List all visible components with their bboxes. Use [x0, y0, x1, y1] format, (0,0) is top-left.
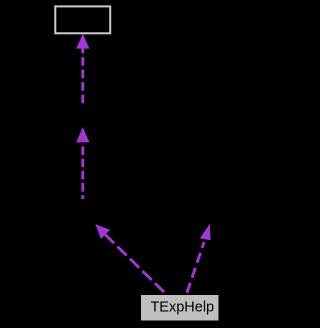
wire: left diagonal arrow line [105, 234, 166, 293]
wire: dashed arrow 1 line [81, 48, 84, 103]
wire: right diagonal arrow line [187, 242, 205, 294]
wire: dashed arrow 2 head (to middle invisible node) [76, 127, 89, 142]
node TExpHelp [141, 295, 220, 322]
wire: dashed arrow 2 line [81, 146, 84, 199]
wire: left diagonal arrow head (TExpHelp to lower invisible node) [95, 224, 110, 239]
wire: right diagonal arrow head (TExpHelp to right invisible node) [200, 224, 211, 241]
node: empty top box [55, 6, 110, 33]
svg-text:TExpHelp: TExpHelp [150, 299, 214, 315]
wire: dashed arrow 1 head (to top box) [76, 34, 89, 49]
